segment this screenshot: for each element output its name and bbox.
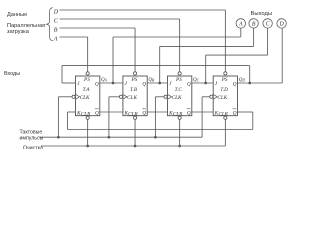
svg-text:PS: PS: [175, 77, 182, 83]
svg-text:QC: QC: [193, 78, 200, 83]
output terminal B: [249, 19, 258, 28]
svg-text:импульсы: импульсы: [20, 135, 44, 141]
wire clock tap to T.B: [108, 97, 110, 137]
wire clear bus: [41, 145, 225, 147]
svg-text:Q: Q: [95, 110, 99, 116]
junction dot QC: [204, 82, 207, 85]
svg-text:CLK: CLK: [217, 95, 227, 101]
svg-text:Q: Q: [233, 81, 237, 87]
svg-text:CLR: CLR: [218, 112, 228, 118]
wire clear tap to T.C: [179, 119, 181, 146]
junction dot clear: [134, 145, 137, 148]
wire clear tap to T.B: [134, 119, 136, 146]
svg-text:CLK: CLK: [80, 95, 90, 101]
wire data B drop to PS of T.B: [134, 28, 136, 72]
svg-text:QD: QD: [239, 78, 246, 83]
svg-text:T.C: T.C: [175, 87, 183, 93]
svg-text:CLR: CLR: [173, 112, 183, 118]
wire data A horizontal: [60, 36, 88, 38]
wire data A drop to PS of T.A: [87, 37, 89, 72]
svg-text:Q: Q: [95, 81, 99, 87]
junction dot clear: [178, 145, 181, 148]
wire clock bus: [39, 136, 202, 138]
svg-text:T.A: T.A: [83, 87, 91, 93]
wire Q of T.C to J of T.D: [192, 82, 213, 84]
svg-text:B: B: [54, 27, 58, 33]
svg-text:Q: Q: [142, 110, 146, 116]
flip-flop T.A: [76, 76, 100, 116]
svg-text:CLK: CLK: [127, 95, 137, 101]
svg-text:CLK: CLK: [172, 95, 182, 101]
svg-text:Входы: Входы: [4, 71, 20, 77]
wire clear tap to T.D: [224, 119, 226, 146]
svg-text:Выходы: Выходы: [251, 11, 273, 17]
brace grouping data inputs: [47, 8, 53, 41]
flip-flop T.D: [213, 76, 237, 116]
svg-text:T.D: T.D: [220, 87, 228, 93]
wire data D horizontal: [60, 9, 226, 11]
flip-flop T.B: [123, 76, 147, 116]
svg-text:D: D: [279, 22, 285, 28]
wire Q of T.A to J of T.B: [100, 82, 123, 84]
wire data D drop to PS of T.D: [224, 10, 226, 72]
svg-text:A: A: [238, 22, 243, 28]
svg-text:A: A: [53, 36, 58, 42]
svg-text:PS: PS: [130, 77, 137, 83]
svg-text:Q: Q: [142, 81, 146, 87]
svg-text:QA: QA: [101, 78, 108, 83]
wire QB up to output B: [159, 46, 161, 83]
junction dot QB: [158, 82, 161, 85]
junction dot QA: [112, 82, 115, 85]
junction dot clock: [108, 136, 111, 139]
wire Qbar of T.A to K of T.B: [100, 111, 123, 113]
svg-text:Данные: Данные: [7, 12, 27, 18]
svg-text:Q: Q: [187, 110, 191, 116]
wire clock tap to T.C: [154, 97, 156, 137]
svg-text:Параллельная: Параллельная: [7, 23, 45, 29]
svg-text:CLR: CLR: [128, 112, 138, 118]
svg-text:PS: PS: [221, 77, 228, 83]
svg-text:T.B: T.B: [130, 87, 138, 93]
svg-text:D: D: [53, 9, 59, 15]
wire Q of T.B to J of T.C: [147, 82, 167, 84]
wire data C horizontal: [60, 18, 180, 20]
wire clock tap to T.A: [57, 97, 59, 137]
wire QA up to output A: [112, 37, 114, 83]
svg-text:загрузка: загрузка: [7, 29, 30, 35]
wire clear tap to T.A: [87, 119, 89, 146]
svg-text:Q: Q: [187, 81, 191, 87]
flip-flop T.C: [168, 76, 192, 116]
output terminal A: [236, 19, 245, 28]
junction dot clock: [57, 136, 60, 139]
wire data B horizontal: [60, 27, 136, 29]
wire Qbar of T.B to K of T.C: [147, 111, 167, 113]
wire QD to output D: [238, 82, 283, 84]
output terminal D: [277, 19, 286, 28]
wire Qbar of T.C to K of T.D: [192, 111, 213, 113]
wire clock tap to T.D: [201, 97, 203, 137]
wire data C drop to PS of T.C: [179, 19, 181, 72]
wire feedback QD to J of T.A: [249, 66, 251, 83]
svg-text:QB: QB: [148, 78, 155, 83]
wire QC up to output C: [205, 55, 207, 83]
svg-text:Q: Q: [233, 110, 237, 116]
svg-text:CLR: CLR: [81, 112, 91, 118]
svg-text:PS: PS: [83, 77, 90, 83]
svg-text:B: B: [252, 22, 256, 28]
wire feedback Qbar D to K of T.A: [238, 111, 253, 113]
junction dot clock: [154, 136, 157, 139]
junction dot clear: [86, 145, 89, 148]
svg-text:Очистка: Очистка: [23, 145, 43, 149]
output terminal C: [263, 19, 272, 28]
svg-text:C: C: [266, 22, 270, 28]
